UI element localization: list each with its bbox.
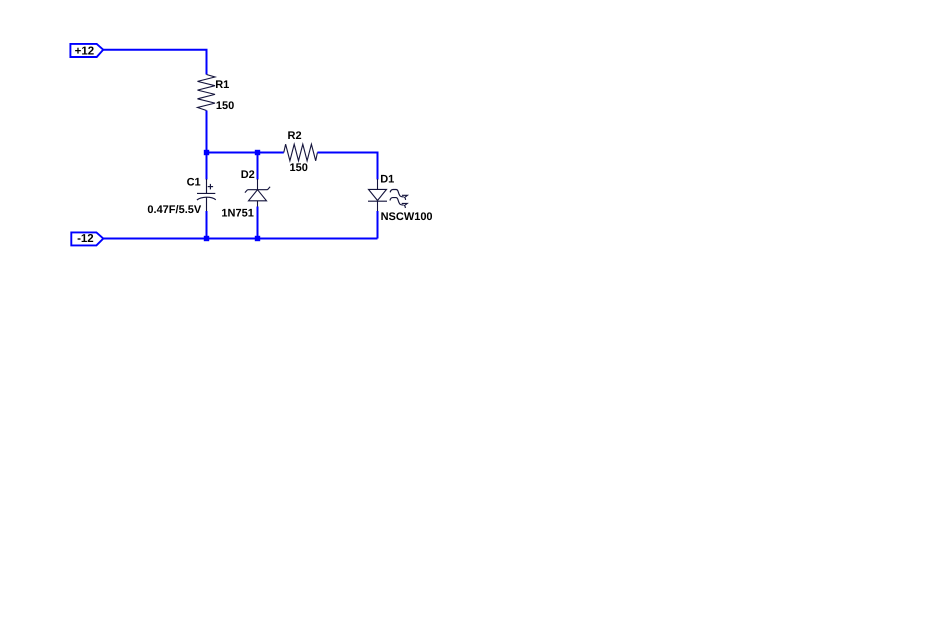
- resistor R2: [284, 144, 318, 161]
- LED light arrow 1: [390, 190, 407, 200]
- svg-text:0.47F/5.5V: 0.47F/5.5V: [147, 204, 201, 216]
- node D junction (D2 bottom): [255, 236, 260, 241]
- svg-text:D2: D2: [241, 169, 255, 181]
- wire R1 bottom to node A: [206, 111, 208, 153]
- svg-text:R1: R1: [215, 79, 229, 91]
- LED D1: [368, 179, 387, 211]
- node C junction (C1 bottom): [204, 236, 209, 241]
- wire R2 right to D1 top: [317, 153, 377, 180]
- wire D1 bottom to bottom rail corner: [377, 211, 379, 239]
- zener diode D2: [245, 179, 270, 207]
- svg-text:1N751: 1N751: [221, 207, 253, 219]
- wire D2 bottom to bottom rail: [257, 207, 259, 239]
- node B junction: [255, 150, 260, 155]
- wire C1 bottom to bottom rail: [206, 211, 208, 239]
- wire node B down to D2: [257, 153, 259, 180]
- svg-text:D1: D1: [380, 173, 394, 185]
- node A junction: [204, 150, 209, 155]
- port flag +12: [70, 44, 103, 57]
- port flag -12: [71, 232, 103, 245]
- wire +12 to R1 top corner: [103, 50, 206, 75]
- svg-text:-12: -12: [77, 233, 94, 245]
- capacitor C1: [197, 179, 216, 211]
- svg-text:C1: C1: [187, 177, 201, 189]
- wire node A down to C1: [206, 153, 208, 180]
- svg-text:+12: +12: [75, 45, 95, 57]
- svg-text:150: 150: [290, 162, 308, 174]
- wire node A to node B: [207, 152, 258, 154]
- LED light arrow 2: [390, 198, 407, 208]
- svg-text:R2: R2: [288, 130, 302, 142]
- svg-text:150: 150: [216, 100, 234, 112]
- wire node B to R2 left: [258, 152, 284, 154]
- resistor R1: [198, 75, 216, 111]
- bottom rail wire: [103, 238, 377, 240]
- svg-text:NSCW100: NSCW100: [381, 211, 433, 223]
